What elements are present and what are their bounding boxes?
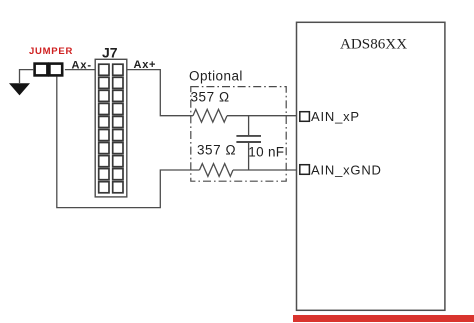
resistor R1 (193, 109, 227, 122)
resistor R2 (200, 164, 234, 177)
wire jumper to J7 (65, 69, 95, 71)
pin AIN_xP (300, 112, 310, 122)
svg-text:10 nF: 10 nF (248, 145, 284, 160)
connector J7 pins (99, 64, 123, 193)
svg-text:ADS86XX: ADS86XX (340, 36, 407, 52)
wire R2 to pin AIN_xGND (233, 169, 300, 171)
jumper W1 (35, 64, 63, 76)
capacitor C1 (236, 116, 261, 170)
pin AIN_xGND (300, 165, 310, 175)
connector J7 body (95, 59, 127, 197)
wire R1 to pin AIN_xP (227, 115, 300, 117)
wire J7 to R1 (127, 70, 193, 116)
red bar bottom (293, 315, 474, 322)
svg-text:AIN_xGND: AIN_xGND (311, 162, 382, 177)
svg-text:357 Ω: 357 Ω (191, 90, 230, 105)
wire jumper down to R2 (57, 77, 200, 208)
svg-text:Ax-: Ax- (72, 59, 92, 71)
svg-text:357 Ω: 357 Ω (197, 142, 236, 157)
wire jumper to ground (20, 70, 34, 83)
svg-text:J7: J7 (102, 44, 118, 60)
svg-text:Optional: Optional (189, 68, 243, 83)
IC U1 ADS86XX body (297, 22, 445, 310)
svg-text:AIN_xP: AIN_xP (311, 109, 360, 124)
optional box (191, 87, 286, 182)
svg-text:JUMPER: JUMPER (29, 46, 73, 57)
ground (9, 83, 30, 95)
